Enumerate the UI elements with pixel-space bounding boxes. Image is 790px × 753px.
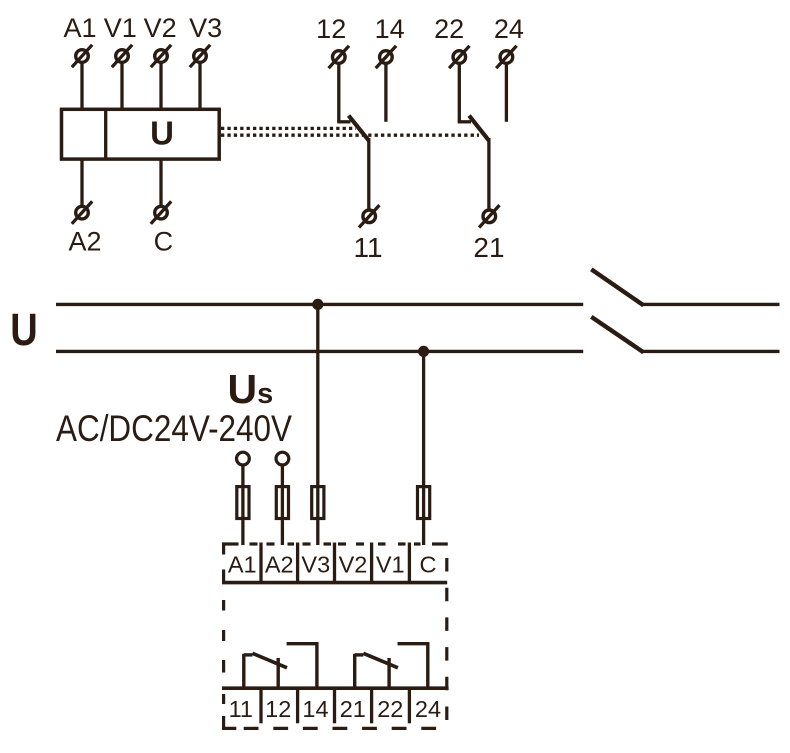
svg-text:24: 24	[494, 14, 524, 44]
svg-text:A1: A1	[63, 13, 96, 43]
svg-text:V2: V2	[144, 13, 177, 43]
terminal A1 (top)	[72, 45, 92, 67]
wire box to C	[159, 158, 162, 206]
relay box U1	[62, 109, 220, 159]
terminal row divider	[259, 543, 262, 583]
contact 2 hook at 22	[458, 120, 471, 123]
svg-text:C: C	[420, 551, 437, 577]
wire V3 to relay box	[198, 63, 201, 111]
svg-text:21: 21	[340, 696, 366, 722]
svg-text:A1: A1	[228, 551, 257, 577]
relay box divider	[104, 109, 107, 159]
bottom terminal row divider	[296, 688, 299, 723]
contact 2 moving arm	[469, 116, 489, 141]
dotted control link to contact 1	[221, 127, 356, 130]
fuse F A1	[237, 487, 249, 519]
internal contact hook 21	[355, 653, 364, 656]
wire arm to 21	[487, 138, 490, 210]
svg-text:A2: A2	[68, 227, 101, 257]
terminal V3 (top)	[190, 45, 210, 67]
terminal V1 (top)	[112, 45, 132, 67]
svg-text:22: 22	[377, 696, 403, 722]
svg-text:U: U	[10, 304, 38, 355]
svg-text:U: U	[150, 115, 174, 152]
wire from terminal 22	[458, 64, 461, 122]
svg-text:V3: V3	[301, 551, 330, 577]
supply line L1 right	[642, 303, 780, 306]
svg-text:A2: A2	[265, 551, 294, 577]
terminal 14	[376, 46, 396, 68]
svg-text:V1: V1	[104, 13, 137, 43]
junction node on L2	[418, 346, 429, 357]
supply line L2	[56, 350, 583, 353]
module outline left dashed edge	[222, 570, 225, 582]
fuse F C	[418, 487, 430, 519]
terminal V2 (top)	[151, 45, 171, 67]
bottom terminal row top line	[222, 686, 449, 690]
terminal row divider	[370, 543, 373, 583]
internal contact moving arm 21-22	[363, 653, 398, 668]
wire L1 to V3 fuse	[316, 304, 319, 545]
module outline bottom dashed edge	[244, 727, 447, 730]
breaker blade L1	[591, 269, 643, 305]
wire box to A2	[80, 158, 83, 206]
wire from terminal 24	[505, 64, 508, 122]
terminal A2	[72, 201, 92, 223]
terminal row divider	[333, 543, 336, 583]
terminal 22	[449, 46, 469, 68]
module outline top dashed edge	[250, 542, 258, 545]
terminal 21	[479, 205, 499, 227]
svg-text:22: 22	[434, 14, 464, 44]
bottom terminal row divider	[370, 688, 373, 723]
svg-text:11: 11	[229, 696, 253, 722]
terminal C (top)	[151, 201, 171, 223]
svg-text:V3: V3	[189, 13, 222, 43]
contact 1 hook at 12	[337, 120, 350, 123]
terminal row divider	[408, 543, 411, 583]
internal contact NC wire 22	[387, 658, 390, 688]
supply line L1	[56, 303, 583, 306]
internal contact pivot wire 11	[242, 654, 245, 688]
svg-text:V2: V2	[339, 551, 368, 577]
wire A1 input to fuse	[241, 465, 244, 545]
wire A2 input to fuse	[281, 465, 284, 545]
module outline bottom-left corner	[224, 716, 237, 728]
module outline top-left corner	[224, 544, 239, 555]
module outline right dashed edge	[445, 558, 448, 728]
breaker blade L2	[591, 317, 643, 353]
input terminal circle A1	[237, 452, 250, 465]
internal contact NO L 24	[398, 644, 428, 689]
terminal row bottom line	[222, 581, 447, 585]
svg-text:C: C	[154, 227, 174, 257]
wire arm to 11	[367, 138, 370, 210]
wire from terminal 14	[384, 64, 387, 122]
internal contact NC wire 12	[277, 658, 280, 688]
svg-text:12: 12	[265, 696, 291, 722]
svg-text:24: 24	[415, 696, 441, 722]
supply line L2 right	[642, 350, 780, 353]
wire from terminal 12	[337, 64, 340, 122]
contact 1 moving arm	[349, 116, 369, 141]
input terminal circle A2	[276, 452, 289, 465]
bottom terminal row divider	[259, 688, 262, 723]
svg-text:V1: V1	[376, 551, 405, 577]
svg-text:14: 14	[375, 14, 405, 44]
internal contact pivot wire 21	[353, 654, 356, 688]
svg-text:14: 14	[302, 696, 328, 722]
svg-text:21: 21	[473, 232, 504, 263]
terminal 24	[496, 46, 516, 68]
fuse F A2	[276, 487, 288, 519]
internal contact NO L 14	[287, 644, 317, 689]
internal contact hook 11	[244, 653, 253, 656]
bottom terminal row divider	[408, 688, 411, 723]
junction node on L1	[312, 299, 323, 310]
bottom terminal row divider	[333, 688, 336, 723]
wire V1 to relay box	[120, 63, 123, 111]
terminal 12	[329, 46, 349, 68]
terminal row divider	[296, 543, 299, 583]
wire A1 to relay box	[80, 63, 83, 111]
internal contact moving arm 11-12	[252, 653, 287, 668]
dotted control link to contact 2	[221, 134, 479, 137]
wire V2 to relay box	[159, 63, 162, 111]
svg-text:11: 11	[353, 232, 382, 263]
svg-text:AC/DC24V-240V: AC/DC24V-240V	[56, 408, 292, 449]
svg-text:12: 12	[316, 14, 346, 44]
terminal 11	[359, 205, 379, 227]
fuse F V3	[312, 487, 324, 519]
wire L2 to C fuse	[422, 351, 425, 545]
